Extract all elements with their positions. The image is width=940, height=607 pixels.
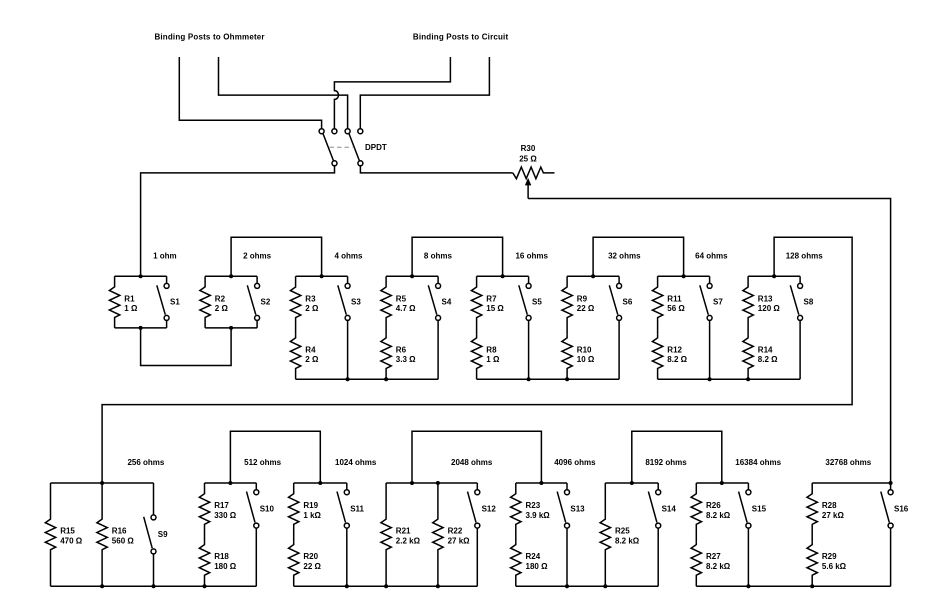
switch S14 arm bbox=[648, 492, 657, 523]
wire: top bridge section2-section3 bbox=[231, 237, 322, 276]
svg-text:S15: S15 bbox=[752, 504, 767, 513]
switch S11 stub top bbox=[346, 483, 348, 490]
svg-text:S11: S11 bbox=[350, 504, 364, 513]
svg-text:27 kΩ: 27 kΩ bbox=[448, 536, 471, 545]
label R6 bbox=[396, 345, 416, 364]
svg-text:R22: R22 bbox=[448, 527, 463, 536]
svg-text:3.9 kΩ: 3.9 kΩ bbox=[526, 511, 551, 520]
switch S11 stub bottom bbox=[346, 528, 348, 586]
switch S1 stub top bbox=[166, 276, 168, 283]
switch S8 stub top bbox=[799, 276, 801, 283]
svg-text:S9: S9 bbox=[158, 530, 168, 539]
label DPDT bbox=[365, 143, 387, 152]
label R20 bbox=[303, 552, 321, 571]
switch S5 stub bottom bbox=[528, 320, 530, 379]
resistor R8 1 ohm bbox=[471, 335, 481, 379]
switch S14 stub bottom bbox=[657, 528, 659, 586]
svg-text:1 Ω: 1 Ω bbox=[124, 304, 138, 313]
svg-text:R18: R18 bbox=[214, 552, 229, 561]
node: section 12 top bar bbox=[386, 481, 477, 485]
label S6 bbox=[623, 297, 633, 306]
svg-text:56 Ω: 56 Ω bbox=[667, 304, 685, 313]
svg-text:180 Ω: 180 Ω bbox=[214, 562, 237, 571]
node: section 2 top bar bbox=[205, 274, 257, 278]
switch S7 stub bottom bbox=[709, 320, 711, 379]
switch S9 bottom contact bbox=[151, 549, 156, 554]
svg-text:R8: R8 bbox=[486, 345, 497, 354]
switch S16 arm bbox=[881, 492, 890, 523]
resistor R3 2 ohm bbox=[290, 276, 300, 335]
DPDT terminal t2 bbox=[332, 129, 337, 134]
node: bottom rail sections 3-4 bbox=[296, 377, 439, 381]
wire: top bridge section12-section13 bbox=[412, 431, 541, 483]
switch S12 stub top bbox=[476, 483, 478, 490]
svg-text:R14: R14 bbox=[758, 345, 773, 354]
wire: low bridge section1-section2 bbox=[141, 328, 232, 366]
resistor R14 8.2 ohm bbox=[743, 335, 753, 379]
svg-text:R13: R13 bbox=[758, 294, 773, 303]
label R8 bbox=[486, 345, 500, 364]
label S9 bbox=[158, 530, 168, 539]
svg-text:22 Ω: 22 Ω bbox=[303, 562, 321, 571]
resistor R18 bbox=[199, 542, 209, 587]
switch S4 stub top bbox=[437, 276, 439, 283]
label R18 bbox=[214, 552, 237, 571]
label R30 bbox=[521, 144, 536, 153]
svg-text:8.2 Ω: 8.2 Ω bbox=[758, 355, 778, 364]
svg-text:10 Ω: 10 Ω bbox=[577, 355, 595, 364]
label R21 bbox=[396, 527, 421, 546]
label R1 bbox=[124, 294, 138, 313]
label R17 bbox=[214, 501, 237, 520]
switch S8 arm bbox=[790, 285, 799, 314]
svg-text:S7: S7 bbox=[713, 297, 723, 306]
switch S7 top contact bbox=[707, 283, 712, 288]
svg-text:4.7 Ω: 4.7 Ω bbox=[396, 304, 416, 313]
svg-text:S3: S3 bbox=[351, 297, 361, 306]
svg-text:512 ohms: 512 ohms bbox=[244, 458, 281, 467]
node: section 1 top bar bbox=[115, 274, 167, 278]
switch S16 bottom contact bbox=[888, 523, 893, 528]
svg-text:1 kΩ: 1 kΩ bbox=[303, 511, 321, 520]
svg-text:64 ohms: 64 ohms bbox=[695, 251, 728, 260]
node: section 13 top bar bbox=[516, 481, 567, 485]
label: 32 ohms section bbox=[608, 251, 641, 260]
svg-text:S13: S13 bbox=[570, 504, 585, 513]
switch S3 stub bottom bbox=[347, 320, 349, 379]
svg-text:S16: S16 bbox=[894, 504, 909, 513]
svg-text:R12: R12 bbox=[667, 345, 682, 354]
svg-text:R5: R5 bbox=[396, 294, 407, 303]
switch S15 bottom contact bbox=[746, 523, 751, 528]
switch S5 stub top bbox=[528, 276, 530, 283]
svg-text:S1: S1 bbox=[170, 297, 180, 306]
switch S1 bottom contact bbox=[164, 315, 169, 320]
switch S3 stub top bbox=[347, 276, 349, 283]
switch S5 top contact bbox=[526, 283, 531, 288]
resistor R15 470 ohm bbox=[45, 483, 55, 586]
label: 512 ohms section bbox=[244, 458, 281, 467]
resistor R27 bbox=[691, 542, 701, 587]
label S5 bbox=[532, 297, 542, 306]
svg-text:DPDT: DPDT bbox=[365, 143, 387, 152]
switch S8 top contact bbox=[798, 283, 803, 288]
DPDT terminal t1 bbox=[319, 129, 324, 134]
svg-text:S12: S12 bbox=[482, 504, 497, 513]
switch S1 top contact bbox=[164, 283, 169, 288]
node: section 2 bottom bar bbox=[205, 326, 257, 330]
label S3 bbox=[351, 297, 361, 306]
resistor R9 22 ohm bbox=[562, 276, 572, 335]
resistor R16 560 ohm bbox=[97, 483, 107, 586]
svg-text:R6: R6 bbox=[396, 345, 407, 354]
svg-text:180 Ω: 180 Ω bbox=[526, 562, 549, 571]
switch S2 top contact bbox=[255, 283, 260, 288]
svg-text:R10: R10 bbox=[577, 345, 592, 354]
switch S12 stub bottom bbox=[476, 528, 478, 586]
node: section 6 top bar bbox=[567, 274, 619, 278]
svg-text:3.3 Ω: 3.3 Ω bbox=[396, 355, 416, 364]
label S10 bbox=[260, 504, 275, 513]
switch S11 top contact bbox=[344, 490, 349, 495]
svg-text:R17: R17 bbox=[214, 501, 229, 510]
switch S4 bottom contact bbox=[436, 315, 441, 320]
label R15 bbox=[60, 527, 83, 546]
svg-text:256 ohms: 256 ohms bbox=[127, 458, 164, 467]
svg-text:1 ohm: 1 ohm bbox=[153, 251, 177, 260]
switch S13 stub top bbox=[566, 483, 568, 490]
label R12 bbox=[667, 345, 687, 364]
svg-text:16 ohms: 16 ohms bbox=[515, 251, 548, 260]
wire: top bridge section4-section5 bbox=[412, 237, 503, 276]
svg-text:R7: R7 bbox=[486, 294, 497, 303]
svg-text:R15: R15 bbox=[60, 527, 75, 536]
resistor R7 15 ohm bbox=[471, 276, 481, 335]
svg-text:5.6 kΩ: 5.6 kΩ bbox=[822, 562, 847, 571]
svg-text:S6: S6 bbox=[623, 297, 633, 306]
switch S14 stub top bbox=[657, 483, 659, 490]
label: 32768 ohms section bbox=[825, 458, 871, 467]
switch S5 arm bbox=[519, 285, 528, 314]
switch S16 top contact bbox=[888, 490, 893, 495]
resistor R30 (pot body) bbox=[513, 167, 555, 179]
node: section 4 top bar bbox=[386, 274, 438, 278]
switch S13 top contact bbox=[565, 490, 570, 495]
label R11 bbox=[667, 294, 685, 313]
svg-text:S14: S14 bbox=[662, 504, 677, 513]
switch S10 arm bbox=[247, 492, 256, 523]
switch S4 stub bottom bbox=[437, 320, 439, 379]
switch S13 bottom contact bbox=[565, 523, 570, 528]
label: Binding Posts to Circuit bbox=[413, 32, 509, 41]
resistor R4 2 ohm bbox=[290, 335, 300, 379]
resistor R10 10 ohm bbox=[562, 335, 572, 379]
node: bottom rail sections 13-14 bbox=[516, 584, 658, 588]
svg-text:470 Ω: 470 Ω bbox=[60, 536, 83, 545]
label R7 bbox=[486, 294, 504, 313]
label: 8 ohms section bbox=[424, 251, 453, 260]
DPDT terminal t4 bbox=[358, 129, 363, 134]
switch S9 top contact bbox=[151, 515, 156, 520]
svg-text:32 ohms: 32 ohms bbox=[608, 251, 641, 260]
svg-text:Binding Posts to Circuit: Binding Posts to Circuit bbox=[413, 32, 509, 41]
switch S4 top contact bbox=[436, 283, 441, 288]
resistor R5 4.7 ohm bbox=[381, 276, 391, 335]
resistor R12 8.2 ohm bbox=[652, 335, 662, 379]
wire: ohmmeter post A to DPDT throw 1 bbox=[179, 57, 321, 129]
label R19 bbox=[303, 501, 321, 520]
switch S6 stub top bbox=[618, 276, 620, 283]
label: 4096 ohms section bbox=[554, 458, 596, 467]
resistor R13 120 ohm bbox=[743, 276, 753, 335]
label: 16384 ohms section bbox=[735, 458, 781, 467]
svg-text:560 Ω: 560 Ω bbox=[112, 536, 135, 545]
wire: DPDT c2 to R30 left lead bbox=[360, 166, 512, 173]
switch S9 stub top bbox=[153, 483, 155, 515]
node: section 8 top bar bbox=[748, 274, 800, 278]
label: 2048 ohms section bbox=[451, 458, 493, 467]
label S12 bbox=[482, 504, 497, 513]
label R10 bbox=[577, 345, 595, 364]
svg-text:R4: R4 bbox=[305, 345, 316, 354]
switch S12 arm bbox=[468, 492, 477, 523]
label: 8192 ohms section bbox=[645, 458, 687, 467]
resistor R21 2.2 kohm bbox=[381, 483, 391, 586]
wire: DPDT c1 to row 1 section feed bbox=[141, 166, 335, 274]
svg-text:22 Ω: 22 Ω bbox=[577, 304, 595, 313]
switch S3 arm bbox=[338, 285, 347, 314]
svg-text:1024 ohms: 1024 ohms bbox=[335, 458, 377, 467]
svg-text:2 Ω: 2 Ω bbox=[305, 355, 319, 364]
switch S1 stub bottom bbox=[166, 320, 168, 328]
label R9 bbox=[577, 294, 595, 313]
node: section 16 top bar bbox=[812, 481, 892, 485]
svg-text:2048 ohms: 2048 ohms bbox=[451, 458, 493, 467]
resistor R25 bbox=[600, 483, 610, 586]
svg-text:2 Ω: 2 Ω bbox=[305, 304, 319, 313]
switch S3 bottom contact bbox=[345, 315, 350, 320]
R30 wiper arrow bbox=[525, 178, 531, 199]
switch S2 arm bbox=[247, 285, 256, 314]
resistor R1 1 ohm bbox=[109, 276, 119, 328]
svg-text:R21: R21 bbox=[396, 527, 411, 536]
node: section 11 top bar bbox=[294, 481, 347, 485]
svg-text:2 ohms: 2 ohms bbox=[243, 251, 272, 260]
switch S15 arm bbox=[739, 492, 748, 523]
svg-text:R11: R11 bbox=[667, 294, 682, 303]
svg-text:8192 ohms: 8192 ohms bbox=[645, 458, 687, 467]
switch S5 bottom contact bbox=[526, 315, 531, 320]
wire: ohmmeter post B to DPDT throw 3 bbox=[219, 57, 348, 129]
wire: top bridge section14-section15 bbox=[632, 431, 722, 483]
wire: top bridge section6-section7 bbox=[593, 237, 684, 276]
node: section 1 bottom bar bbox=[115, 326, 167, 330]
switch S11 arm bbox=[337, 492, 346, 523]
svg-text:S2: S2 bbox=[261, 297, 271, 306]
svg-text:1 Ω: 1 Ω bbox=[486, 355, 500, 364]
switch S12 top contact bbox=[475, 490, 480, 495]
label: 128 ohms section bbox=[786, 251, 823, 260]
svg-text:R16: R16 bbox=[112, 527, 127, 536]
svg-text:15 Ω: 15 Ω bbox=[486, 304, 504, 313]
switch S1 arm bbox=[157, 285, 166, 314]
label R3 bbox=[305, 294, 319, 313]
switch S10 bottom contact bbox=[254, 523, 259, 528]
switch S6 arm bbox=[609, 285, 618, 314]
label R16 bbox=[112, 527, 135, 546]
node: bottom rail sections 15-16 bbox=[696, 584, 890, 588]
svg-text:R29: R29 bbox=[822, 552, 837, 561]
svg-text:330 Ω: 330 Ω bbox=[214, 511, 237, 520]
node: section 14 top bar bbox=[605, 481, 658, 485]
label S1 bbox=[170, 297, 180, 306]
wire: circuit post A to DPDT pole 2 (with hop) bbox=[334, 57, 450, 129]
svg-text:16384 ohms: 16384 ohms bbox=[735, 458, 781, 467]
wire: top bridge section10-section11 bbox=[230, 431, 320, 483]
svg-text:8.2 kΩ: 8.2 kΩ bbox=[706, 511, 731, 520]
switch S6 top contact bbox=[617, 283, 622, 288]
label: 4 ohms section bbox=[334, 251, 363, 260]
label R23 bbox=[526, 501, 551, 520]
label R13 bbox=[758, 294, 781, 313]
svg-text:R27: R27 bbox=[706, 552, 721, 561]
svg-text:S8: S8 bbox=[804, 297, 814, 306]
switch S11 bottom contact bbox=[344, 523, 349, 528]
svg-text:4 ohms: 4 ohms bbox=[334, 251, 363, 260]
switch S13 stub bottom bbox=[566, 528, 568, 586]
svg-text:R9: R9 bbox=[577, 294, 588, 303]
label R24 bbox=[526, 552, 549, 571]
svg-text:S4: S4 bbox=[442, 297, 452, 306]
svg-text:4096 ohms: 4096 ohms bbox=[554, 458, 596, 467]
svg-text:R2: R2 bbox=[215, 294, 226, 303]
svg-text:25 Ω: 25 Ω bbox=[519, 155, 537, 164]
switch S7 stub top bbox=[709, 276, 711, 283]
label: 2 ohms section bbox=[243, 251, 272, 260]
node: section 5 top bar bbox=[477, 274, 529, 278]
resistor R20 bbox=[289, 542, 299, 587]
switch S10 stub bottom bbox=[255, 528, 257, 586]
label S11 bbox=[350, 504, 364, 513]
svg-text:2.2 kΩ: 2.2 kΩ bbox=[396, 536, 421, 545]
label R4 bbox=[305, 345, 319, 364]
label: 16 ohms section bbox=[515, 251, 548, 260]
switch S15 stub top bbox=[747, 483, 749, 490]
resistor R26 bbox=[691, 483, 701, 542]
switch S15 top contact bbox=[746, 490, 751, 495]
resistor R23 bbox=[511, 483, 521, 542]
resistor R29 bbox=[807, 542, 817, 587]
label R29 bbox=[822, 552, 847, 571]
switch S9 stub bottom bbox=[153, 554, 155, 586]
label S4 bbox=[442, 297, 452, 306]
switch S12 bottom contact bbox=[475, 523, 480, 528]
svg-text:R3: R3 bbox=[305, 294, 316, 303]
label R25 bbox=[615, 527, 640, 546]
resistor R19 bbox=[289, 483, 299, 542]
switch S16 stub bottom bbox=[890, 528, 892, 586]
svg-text:R23: R23 bbox=[526, 501, 541, 510]
switch S3 top contact bbox=[345, 283, 350, 288]
switch S8 stub bottom bbox=[799, 320, 801, 379]
resistor R24 bbox=[511, 542, 521, 587]
svg-text:8 ohms: 8 ohms bbox=[424, 251, 453, 260]
label R2 bbox=[215, 294, 229, 313]
node: section 15 top bar bbox=[696, 481, 748, 485]
label S15 bbox=[752, 504, 767, 513]
svg-text:Binding Posts to Ohmmeter: Binding Posts to Ohmmeter bbox=[154, 32, 264, 41]
switch S10 top contact bbox=[254, 490, 259, 495]
label S13 bbox=[570, 504, 585, 513]
resistor R28 bbox=[807, 483, 817, 542]
switch S4 arm bbox=[428, 285, 437, 314]
label R22 bbox=[448, 527, 471, 546]
switch S14 bottom contact bbox=[656, 523, 661, 528]
node: section 10 top bar bbox=[205, 481, 257, 485]
svg-text:S10: S10 bbox=[260, 504, 275, 513]
label S16 bbox=[894, 504, 909, 513]
node: section 9 top bar bbox=[51, 481, 154, 485]
node: bottom rail sections 5-6 bbox=[477, 377, 619, 381]
node: bottom rail sections 7-8 bbox=[658, 377, 801, 381]
node: section 3 top bar bbox=[296, 274, 348, 278]
svg-text:8.2 Ω: 8.2 Ω bbox=[667, 355, 687, 364]
resistor R17 bbox=[199, 483, 209, 542]
svg-text:R25: R25 bbox=[615, 527, 630, 536]
label R14 bbox=[758, 345, 778, 364]
svg-text:S5: S5 bbox=[532, 297, 542, 306]
label: Binding Posts to Ohmmeter bbox=[154, 32, 264, 41]
label: 64 ohms section bbox=[695, 251, 728, 260]
svg-text:R30: R30 bbox=[521, 144, 536, 153]
DPDT arm 2 bbox=[349, 133, 360, 161]
node: section 7 top bar bbox=[658, 274, 710, 278]
wire: R30 wiper to S16 top bbox=[528, 199, 891, 483]
switch S15 stub bottom bbox=[747, 528, 749, 586]
resistor R22 27 kohm bbox=[433, 483, 443, 586]
switch S6 stub bottom bbox=[618, 320, 620, 379]
wire: section8 to row 2 feed bbox=[102, 237, 852, 482]
switch S7 bottom contact bbox=[707, 315, 712, 320]
svg-text:27 kΩ: 27 kΩ bbox=[822, 511, 845, 520]
resistor R2 2 ohm bbox=[200, 276, 210, 328]
label S2 bbox=[261, 297, 271, 306]
switch S16 stub top bbox=[890, 483, 892, 490]
switch S8 bottom contact bbox=[798, 315, 803, 320]
svg-text:R20: R20 bbox=[303, 552, 318, 561]
svg-text:128 ohms: 128 ohms bbox=[786, 251, 823, 260]
svg-text:120 Ω: 120 Ω bbox=[758, 304, 781, 313]
svg-text:32768 ohms: 32768 ohms bbox=[825, 458, 871, 467]
DPDT arm 1 bbox=[323, 133, 334, 161]
svg-text:R26: R26 bbox=[706, 501, 721, 510]
label R28 bbox=[822, 501, 845, 520]
label R26 bbox=[706, 501, 731, 520]
label S8 bbox=[804, 297, 814, 306]
wire: circuit post B to DPDT throw 4 bbox=[360, 57, 489, 129]
label: 256 ohms section bbox=[127, 458, 164, 467]
label R27 bbox=[706, 552, 731, 571]
label R30 value bbox=[519, 155, 537, 164]
svg-text:R28: R28 bbox=[822, 501, 837, 510]
label S7 bbox=[713, 297, 723, 306]
switch S9 arm bbox=[144, 517, 153, 548]
DPDT common c1 bbox=[332, 161, 337, 166]
switch S7 arm bbox=[700, 285, 709, 314]
switch S10 stub top bbox=[255, 483, 257, 490]
node: bottom rail sections 11-12 bbox=[294, 584, 478, 588]
switch S2 bottom contact bbox=[255, 315, 260, 320]
